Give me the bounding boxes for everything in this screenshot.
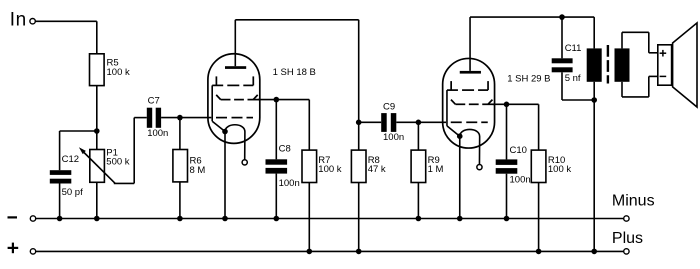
svg-text:100 k: 100 k — [548, 164, 571, 175]
svg-text:C11: C11 — [565, 43, 582, 54]
svg-text:In: In — [10, 9, 27, 30]
svg-text:C12: C12 — [62, 154, 79, 165]
svg-text:C8: C8 — [279, 143, 291, 154]
svg-text:100 k: 100 k — [318, 164, 341, 175]
svg-text:1 SH 29 B: 1 SH 29 B — [507, 74, 550, 85]
svg-text:500 k: 500 k — [106, 156, 129, 167]
svg-text:100n: 100n — [383, 132, 404, 143]
svg-text:100n: 100n — [510, 175, 531, 186]
svg-text:100n: 100n — [147, 128, 168, 139]
svg-text:50 pf: 50 pf — [62, 187, 83, 198]
svg-text:1 M: 1 M — [428, 164, 444, 175]
svg-text:100n: 100n — [279, 178, 300, 189]
svg-text:47 k: 47 k — [368, 164, 386, 175]
svg-text:C10: C10 — [510, 145, 527, 156]
svg-text:8 M: 8 M — [190, 165, 206, 176]
svg-text:100 k: 100 k — [107, 67, 130, 78]
svg-text:C7: C7 — [148, 96, 160, 107]
svg-text:5 nf: 5 nf — [565, 73, 581, 84]
svg-text:1 SH 18 B: 1 SH 18 B — [273, 67, 316, 78]
svg-text:Minus: Minus — [612, 193, 655, 210]
svg-text:C9: C9 — [383, 102, 395, 113]
svg-text:Plus: Plus — [612, 230, 643, 247]
